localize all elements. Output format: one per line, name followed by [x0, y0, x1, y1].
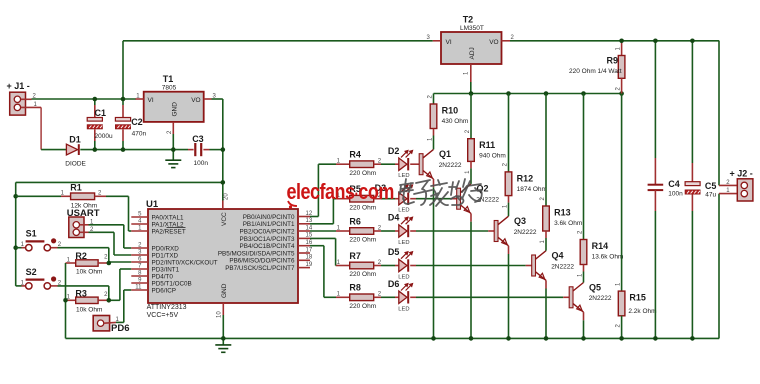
wire R9 junction down to R15 — [621, 94, 623, 292]
wire VCC horizontal to left rail — [16, 181, 223, 183]
wire USART pin2 to U1 TXD — [89, 232, 132, 255]
svg-text:10: 10 — [217, 311, 223, 318]
svg-text:220 Ohm: 220 Ohm — [349, 237, 376, 244]
wire D5 to Q4 base — [410, 265, 416, 267]
watermark chinese characters — [399, 179, 482, 206]
svg-text:PD1/TXD: PD1/TXD — [152, 252, 179, 259]
junction dots ground rail — [221, 336, 226, 341]
svg-text:R10: R10 — [442, 106, 459, 116]
svg-text:1874 Ohm: 1874 Ohm — [517, 186, 547, 193]
switch S2 — [16, 276, 58, 289]
svg-text:PB0/AIN0/PCINT0: PB0/AIN0/PCINT0 — [243, 214, 295, 221]
svg-text:R11: R11 — [479, 140, 495, 150]
svg-text:R8: R8 — [349, 283, 361, 293]
svg-text:C2: C2 — [131, 117, 143, 127]
wire U1 PB0 to R4 row — [310, 164, 336, 216]
LED D3 — [395, 184, 413, 205]
svg-text:D1: D1 — [69, 134, 81, 144]
ground row wire (D1 row) — [41, 149, 66, 151]
wire ground vertical R2 R3 pin1 — [65, 263, 67, 338]
svg-text:PA0/XTAL1: PA0/XTAL1 — [152, 214, 184, 221]
junction dots top rail — [619, 39, 624, 44]
voltage regulator T2 LM350T — [433, 32, 510, 94]
svg-text:2N2222: 2N2222 — [439, 162, 462, 169]
U1 pin 6 PD2/INT0/XCK/CKOUT — [131, 257, 217, 267]
overline on RESET — [167, 227, 186, 229]
svg-text:PB6/MISO/DO/PCINT6: PB6/MISO/DO/PCINT6 — [229, 258, 295, 265]
resistor R5 — [336, 195, 381, 202]
svg-text:LED: LED — [398, 240, 409, 246]
U1 pin 13 PB1/AIN1/PCINT1 — [243, 218, 313, 228]
transistor Q2 2N2222 — [457, 184, 471, 214]
svg-text:PD5/T1/OC0B: PD5/T1/OC0B — [152, 280, 192, 287]
wire U1 PB4 to R8 row — [310, 246, 336, 298]
svg-text:ADJ: ADJ — [469, 47, 476, 59]
svg-text:VI: VI — [446, 39, 452, 46]
wire R8 to D6 — [381, 296, 395, 298]
wire R4 to D2 — [381, 163, 395, 165]
wire PD6 to U1 ICP — [116, 290, 131, 322]
wire Q3 emitter to ground rail — [508, 246, 510, 254]
svg-text:2N2222: 2N2222 — [514, 229, 537, 236]
U1 pin 1 PA2/RESET — [131, 226, 186, 236]
svg-text:PD6/ICP: PD6/ICP — [152, 287, 177, 294]
transistor Q5 2N2222 — [569, 283, 583, 313]
wire U1 PB3 to R7 row — [310, 238, 336, 265]
resistor R8 — [336, 294, 381, 301]
wire S1 to R2 pin2 junction — [58, 248, 109, 263]
wire Q2 emitter to ground rail — [470, 214, 472, 222]
wire Q5 emitter to ground rail — [583, 312, 585, 320]
svg-text:elecfans·com: elecfans·com — [287, 180, 394, 204]
wire vertical from top rail to T1 input row — [122, 41, 124, 99]
svg-text:20: 20 — [224, 193, 230, 200]
resistor R13 — [543, 94, 550, 251]
LED D4 — [395, 216, 413, 237]
svg-text:D5: D5 — [388, 247, 400, 257]
wire D3 to Q2 base — [410, 198, 416, 200]
ground symbol near T1 — [165, 150, 181, 168]
svg-text:220 Ohm: 220 Ohm — [349, 170, 376, 177]
wire +5V vertical to U1 VCC — [222, 99, 224, 201]
svg-text:C1: C1 — [95, 108, 107, 118]
svg-text:2N2222: 2N2222 — [589, 295, 612, 302]
resistor R3 — [66, 297, 109, 303]
svg-text:LED: LED — [398, 275, 409, 281]
svg-text:VI: VI — [148, 97, 154, 104]
svg-text:R12: R12 — [517, 173, 534, 183]
U1 pin 4 PA1/XTAL2 — [131, 219, 184, 229]
watermark elecfans.com — [287, 180, 394, 204]
svg-text:R7: R7 — [349, 251, 361, 261]
svg-text:D4: D4 — [388, 213, 400, 223]
svg-text:940 Ohm: 940 Ohm — [479, 153, 506, 160]
wire Q4 emitter to ground rail — [545, 280, 547, 288]
capacitor C1 — [87, 99, 102, 150]
svg-text:470n: 470n — [132, 130, 147, 137]
resistor R9 — [618, 41, 625, 94]
svg-text:R14: R14 — [592, 241, 609, 251]
svg-text:T1: T1 — [163, 74, 174, 84]
resistor R15 — [618, 291, 625, 338]
capacitor C3 — [195, 143, 201, 156]
wire D6 to Q5 base — [410, 296, 416, 298]
wire J2 minus column — [719, 194, 737, 339]
svg-text:C4: C4 — [668, 179, 680, 189]
U1 pin 2 PD0/RXD — [131, 243, 179, 253]
resistor R10 — [430, 94, 437, 150]
svg-text:PB5/MOSI/DI/SDA/PCINT5: PB5/MOSI/DI/SDA/PCINT5 — [218, 250, 295, 257]
wire U1 PB1 to R5 row — [310, 199, 336, 224]
svg-text:PA2/RESET: PA2/RESET — [152, 228, 186, 235]
svg-text:LED: LED — [398, 208, 409, 214]
svg-text:S1: S1 — [26, 229, 37, 239]
svg-text:LED: LED — [398, 173, 409, 179]
wire R6 to D4 — [381, 230, 395, 232]
svg-text:R13: R13 — [554, 208, 571, 218]
ADJ rail wire — [434, 93, 622, 95]
wire U1 PB2 to R6 row — [310, 230, 336, 232]
svg-text:PB1/AIN1/PCINT1: PB1/AIN1/PCINT1 — [243, 221, 295, 228]
svg-text:T2: T2 — [463, 15, 474, 25]
wire top rail right segment — [510, 40, 719, 42]
svg-text:U1: U1 — [146, 199, 159, 210]
connector J1 — [10, 92, 41, 115]
transistor Q4 2N2222 — [532, 251, 546, 281]
svg-text:LM350T: LM350T — [460, 25, 484, 32]
resistor R11 — [468, 94, 475, 184]
svg-text:2000u: 2000u — [95, 133, 113, 140]
svg-text:17: 17 — [306, 247, 313, 253]
U1 pin 9 PD5/T1/OC0B — [131, 278, 191, 288]
svg-text:100n: 100n — [194, 160, 209, 167]
svg-text:C5: C5 — [705, 181, 717, 191]
svg-text:VCC=+5V: VCC=+5V — [147, 312, 179, 319]
wire Q1 emitter to ground rail — [433, 179, 435, 187]
U1 pin 14 PB2/OC0A/PCINT2 — [240, 225, 313, 235]
microcontroller U1 ATTINY2313 — [148, 209, 298, 303]
resistor R6 — [336, 228, 381, 235]
svg-text:7805: 7805 — [162, 84, 177, 91]
transistor Q1 2N2222 — [419, 149, 433, 179]
wire R7 to D5 — [381, 265, 395, 267]
svg-text:Q3: Q3 — [514, 216, 526, 226]
connector J2 — [737, 179, 753, 201]
resistor R2 — [66, 260, 109, 266]
wire S2 to R3 pin2 junction — [58, 286, 109, 300]
svg-text:PD6: PD6 — [111, 323, 129, 334]
U1 pin 10 GND stub — [217, 303, 224, 338]
wire R3 junction to U1 INT1 — [109, 269, 132, 300]
connector PD6 — [93, 316, 116, 331]
junction dots ADJ rail — [469, 91, 474, 96]
svg-text:PB4/OC1B/PCINT4: PB4/OC1B/PCINT4 — [240, 243, 295, 250]
svg-text:430 Ohm: 430 Ohm — [442, 118, 469, 125]
svg-text:PD3/INT1: PD3/INT1 — [152, 266, 180, 273]
LED D6 — [395, 283, 413, 304]
svg-text:220 Ohm: 220 Ohm — [349, 204, 376, 211]
U1 pin 17 PB5/MOSI/DI/SDA/PCINT5 — [218, 247, 313, 257]
capacitor C5 — [685, 41, 700, 339]
wire R5 to D3 — [381, 198, 395, 200]
ground symbol below U1 — [215, 338, 231, 352]
resistor R12 — [505, 94, 512, 217]
svg-text:D2: D2 — [388, 146, 400, 156]
capacitor C2 — [115, 99, 130, 150]
U1 pin 12 PB0/AIN0/PCINT0 — [243, 211, 313, 221]
svg-text:3.6k Ohm: 3.6k Ohm — [554, 220, 582, 227]
svg-text:220 Ohm 1/4 Watt: 220 Ohm 1/4 Watt — [569, 68, 622, 75]
svg-text:Q1: Q1 — [439, 149, 451, 159]
wire top rail left segment — [123, 40, 433, 42]
svg-text:C3: C3 — [192, 134, 204, 144]
svg-text:GND: GND — [221, 283, 228, 298]
svg-text:VO: VO — [191, 97, 200, 104]
svg-text:R1: R1 — [70, 183, 82, 193]
svg-text:VO: VO — [489, 39, 498, 46]
svg-text:Q5: Q5 — [589, 282, 601, 292]
svg-text:100n: 100n — [668, 190, 683, 197]
svg-text:R6: R6 — [349, 216, 361, 226]
wire R2 junction to U1 INT0 — [109, 261, 132, 263]
resistor R1 — [16, 193, 132, 231]
U1 pin 7 PD3/INT1 — [131, 264, 179, 274]
svg-text:220 Ohm: 220 Ohm — [349, 303, 376, 310]
wire USART pin1 to U1 RXD — [89, 225, 132, 248]
svg-text:D6: D6 — [388, 279, 400, 289]
svg-text:PD2/INT0/XCK/CKOUT: PD2/INT0/XCK/CKOUT — [152, 259, 218, 266]
svg-text:R3: R3 — [75, 289, 87, 299]
svg-text:GND: GND — [171, 102, 178, 117]
U1 pin 19 PB7/USCK/SCL/PCINT7 — [225, 262, 313, 272]
svg-text:R4: R4 — [349, 150, 361, 160]
resistor R14 — [580, 94, 587, 283]
wire left rail vertical — [15, 182, 17, 286]
svg-text:2.2k Ohm: 2.2k Ohm — [628, 308, 656, 315]
U1 pin 16 PB4/OC1B/PCINT4 — [240, 240, 313, 250]
wire T1 VO to +5V corner — [212, 98, 223, 100]
svg-text:220 Ohm: 220 Ohm — [349, 271, 376, 278]
svg-text:ATTINY2313: ATTINY2313 — [147, 304, 187, 311]
U1 pin 5 PA0/XTAL1 — [131, 212, 184, 222]
capacitor C4 — [648, 41, 664, 339]
svg-text:PB3/OC1A/PCINT3: PB3/OC1A/PCINT3 — [240, 236, 295, 243]
wire D4 to Q3 base — [410, 230, 416, 232]
svg-text:PA1/XTAL2: PA1/XTAL2 — [152, 221, 184, 228]
svg-text:13.6k Ohm: 13.6k Ohm — [592, 254, 624, 261]
wire J1 pin1 down — [40, 107, 42, 149]
svg-text:PB2/OC0A/PCINT2: PB2/OC0A/PCINT2 — [240, 228, 295, 235]
svg-text:11: 11 — [135, 285, 142, 291]
resistor R7 — [336, 262, 381, 269]
svg-text:LED: LED — [398, 306, 409, 312]
svg-text:R2: R2 — [75, 251, 87, 261]
U1 pin 8 PD4/T0 — [131, 271, 173, 281]
U1 pin 18 PB6/MISO/DO/PCINT6 — [229, 255, 312, 265]
U1 pin 3 PD1/TXD — [131, 250, 178, 260]
svg-text:18: 18 — [306, 255, 313, 261]
wire J1 pin2 to T1 VI — [32, 98, 137, 100]
svg-text:19: 19 — [306, 262, 313, 268]
switch S1 — [16, 238, 58, 251]
svg-text:10k Ohm: 10k Ohm — [76, 307, 102, 314]
svg-text:DIODE: DIODE — [65, 160, 86, 167]
wire J2 plus column — [719, 41, 737, 186]
svg-text:10k Ohm: 10k Ohm — [76, 268, 102, 275]
svg-text:PD4/T0: PD4/T0 — [152, 273, 174, 280]
svg-text:Q4: Q4 — [552, 251, 564, 261]
junction dots power section — [93, 97, 98, 102]
ground rail — [66, 337, 720, 339]
wire D2 to Q1 base — [410, 163, 419, 165]
svg-text:R9: R9 — [607, 56, 619, 66]
transistor Q3 2N2222 — [494, 216, 508, 246]
svg-text:S2: S2 — [26, 267, 37, 277]
connector USART — [69, 217, 89, 238]
LED D5 — [395, 251, 413, 272]
svg-text:+ J1 -: + J1 - — [7, 81, 30, 91]
junction dots R2 R3 — [107, 261, 112, 266]
diode D1 — [66, 144, 78, 155]
svg-text:VCC: VCC — [221, 212, 228, 226]
svg-text:USART: USART — [67, 208, 100, 219]
svg-text:47u: 47u — [705, 191, 716, 198]
U1 pin 20 VCC stub — [223, 193, 230, 209]
U1 pin 11 PD6/ICP — [131, 285, 176, 295]
svg-text:2N2222: 2N2222 — [551, 263, 574, 270]
svg-text:PB7/USCK/SCL/PCINT7: PB7/USCK/SCL/PCINT7 — [225, 265, 295, 272]
voltage regulator T1 7805 — [136, 92, 212, 150]
LED D2 — [395, 150, 413, 171]
svg-text:+ J2 -: + J2 - — [730, 168, 753, 178]
svg-text:PD0/RXD: PD0/RXD — [152, 245, 180, 252]
svg-text:R15: R15 — [629, 293, 646, 303]
U1 pin 15 PB3/OC1A/PCINT3 — [240, 233, 313, 243]
resistor R4 — [336, 161, 381, 168]
